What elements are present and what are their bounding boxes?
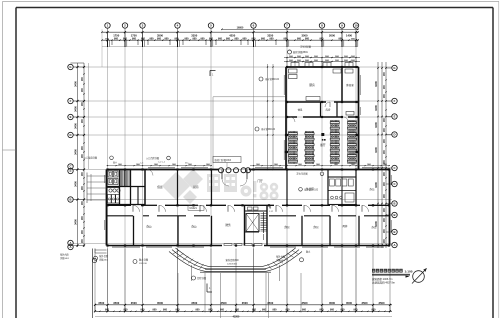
svg-text:办公: 办公 <box>371 225 377 229</box>
watermark text <box>207 174 279 200</box>
annotation toilet detail <box>296 172 324 176</box>
svg-text:900: 900 <box>302 309 307 312</box>
north arrow <box>406 268 427 284</box>
svg-text:C: C <box>393 166 395 170</box>
svg-text:3500: 3500 <box>157 301 163 305</box>
svg-text:3500: 3500 <box>302 301 308 305</box>
right dimension lines <box>378 62 386 248</box>
svg-text:C: C <box>69 165 71 169</box>
svg-text:900: 900 <box>114 38 119 41</box>
right axis circles <box>386 65 397 247</box>
annotation ramp <box>84 156 113 160</box>
svg-text:900: 900 <box>330 309 335 312</box>
svg-text:3500: 3500 <box>242 301 248 305</box>
right dimension numbers <box>374 71 386 243</box>
svg-text:办公: 办公 <box>191 225 197 229</box>
right toilet block walls <box>328 177 356 205</box>
left dimension ticks <box>77 66 86 247</box>
svg-text:10: 10 <box>354 24 358 28</box>
wing wall C <box>286 116 359 118</box>
svg-text:900: 900 <box>201 38 206 41</box>
corridor wall north <box>107 204 390 206</box>
svg-text:D: D <box>393 133 395 137</box>
svg-text:900: 900 <box>218 38 223 41</box>
svg-text:900: 900 <box>262 309 267 312</box>
svg-text:900: 900 <box>124 309 129 312</box>
svg-text:3400: 3400 <box>74 106 78 112</box>
svg-text:B: B <box>69 198 71 202</box>
svg-text:900: 900 <box>196 309 201 312</box>
svg-text:900: 900 <box>235 309 240 312</box>
svg-text:900: 900 <box>243 38 248 41</box>
main bottom wall with entrance <box>107 246 390 248</box>
svg-text:财务: 财务 <box>225 223 231 227</box>
svg-text:3400: 3400 <box>74 149 78 155</box>
svg-text:B: B <box>393 230 395 234</box>
svg-text:900: 900 <box>273 309 278 312</box>
annotation fan detail <box>192 276 207 280</box>
svg-text:1200X300: 1200X300 <box>227 264 238 266</box>
dining hall center column <box>320 133 326 147</box>
svg-text:900: 900 <box>372 309 377 312</box>
svg-text:3500: 3500 <box>346 301 352 305</box>
vertical axis grid lines <box>108 41 357 303</box>
svg-text:D: D <box>69 133 71 137</box>
main top wall <box>107 168 391 170</box>
watermark logo diamonds <box>162 169 203 204</box>
svg-text:900: 900 <box>235 38 240 41</box>
svg-text:3500: 3500 <box>98 301 104 305</box>
svg-text:总建筑面积:4937.9m: 总建筑面积:4937.9m <box>372 280 395 284</box>
svg-text:900: 900 <box>132 38 137 41</box>
steps bottom left <box>95 249 107 254</box>
svg-text:B: B <box>393 202 395 206</box>
wing interior vertical wall <box>341 67 343 102</box>
svg-text:接待: 接待 <box>193 185 199 189</box>
toilet fixtures left block <box>107 171 121 203</box>
svg-text:办公: 办公 <box>146 225 152 229</box>
svg-text:900: 900 <box>105 309 110 312</box>
stair treads left block <box>120 171 130 187</box>
left axis circles <box>68 64 84 249</box>
horizontal axis grid lines <box>73 67 392 244</box>
svg-text:900: 900 <box>141 38 146 41</box>
svg-text:F: F <box>70 99 72 103</box>
wing small room walls <box>321 102 355 117</box>
annotation steps detail left outer <box>60 253 70 260</box>
svg-text:A: A <box>69 245 71 249</box>
svg-text:900: 900 <box>297 38 302 41</box>
entrance platform <box>192 258 280 281</box>
top dimension lines <box>102 29 358 46</box>
room labels <box>146 179 377 229</box>
svg-text:J301 80: J301 80 <box>139 263 148 265</box>
svg-text:F: F <box>394 99 396 103</box>
top axis circles <box>105 23 359 41</box>
corridor boxed door label <box>188 206 204 211</box>
svg-text:A: A <box>393 243 395 247</box>
corridor door swings <box>133 205 369 212</box>
svg-text:G: G <box>393 66 395 70</box>
svg-text:900: 900 <box>176 309 181 312</box>
door arc room1 <box>147 102 348 176</box>
svg-text:休息室: 休息室 <box>346 83 354 87</box>
svg-text:900: 900 <box>165 38 170 41</box>
vestibule walls <box>222 170 247 187</box>
core walls <box>245 205 268 245</box>
annotation above wall <box>146 156 170 160</box>
dining tables column 3 <box>330 120 339 163</box>
svg-text:3500: 3500 <box>379 301 385 305</box>
right dimension ticks <box>377 67 387 246</box>
rain pipe annotation 1 <box>259 77 280 81</box>
wing room labels <box>298 83 355 112</box>
elevator <box>246 207 259 232</box>
title text <box>372 269 413 276</box>
wing annotation kitchen detail <box>288 45 311 55</box>
svg-text:3400: 3400 <box>374 182 378 188</box>
svg-text:900: 900 <box>157 38 162 41</box>
svg-text:休息: 休息 <box>298 108 303 112</box>
svg-text:900: 900 <box>220 309 225 312</box>
fan radial ticks <box>173 250 299 269</box>
svg-text:900: 900 <box>286 309 291 312</box>
svg-text:3400: 3400 <box>374 105 378 111</box>
svg-text:3400: 3400 <box>74 181 78 187</box>
svg-text:C: C <box>69 169 71 173</box>
annotation steps detail 1 <box>94 254 109 261</box>
svg-text:E: E <box>70 115 72 119</box>
structural columns <box>106 66 390 247</box>
svg-text:900: 900 <box>341 309 346 312</box>
svg-text:900: 900 <box>252 309 257 312</box>
bottom dimension lines <box>95 305 392 317</box>
svg-text:3500: 3500 <box>362 301 368 305</box>
svg-text:办公: 办公 <box>369 187 375 191</box>
svg-text:900: 900 <box>150 38 155 41</box>
svg-text:办公: 办公 <box>284 225 290 229</box>
wing top wall with windows <box>286 63 359 68</box>
svg-text:900: 900 <box>209 309 214 312</box>
svg-text:2000: 2000 <box>329 33 335 37</box>
svg-text:900: 900 <box>270 38 275 41</box>
svg-text:风井: 风井 <box>342 224 348 228</box>
svg-text:3500: 3500 <box>131 301 137 305</box>
dining tables column 4 <box>347 120 356 163</box>
bottom dimension ticks <box>94 304 391 313</box>
annotation right bottom <box>306 250 311 254</box>
svg-text:900: 900 <box>305 38 310 41</box>
dining tables column 1 <box>288 131 297 163</box>
dining right wall <box>358 117 360 170</box>
window dim chain above main wall <box>107 164 391 166</box>
bottom dimension ticks extra <box>99 311 385 312</box>
section mark bottom <box>207 284 212 293</box>
wing top dimension lines <box>284 56 360 66</box>
annotation revolving door box <box>213 157 241 169</box>
svg-text:库房: 库房 <box>326 108 331 112</box>
svg-text:900: 900 <box>320 309 325 312</box>
annotation steps detail right <box>276 255 304 262</box>
kitchen fixtures <box>289 69 354 107</box>
svg-text:900: 900 <box>261 38 266 41</box>
left dimension lines <box>71 63 85 247</box>
entrance doors <box>224 244 262 246</box>
section mark top <box>210 71 216 77</box>
entrance ramp left <box>87 173 107 204</box>
svg-text:900: 900 <box>175 38 180 41</box>
toilet stair block walls <box>107 170 146 206</box>
wing left dim chain <box>267 64 274 170</box>
main left wall <box>105 170 107 246</box>
room divider walls upper row <box>178 170 357 206</box>
svg-text:3400: 3400 <box>74 219 78 225</box>
svg-text:3400: 3400 <box>374 122 378 128</box>
svg-text:3400: 3400 <box>374 81 378 87</box>
svg-text:C-2 C-2: C-2 C-2 <box>158 162 166 164</box>
colonnade columns <box>219 168 251 173</box>
wing kitchen wall B <box>286 101 359 103</box>
svg-text:16800: 16800 <box>237 27 244 30</box>
annotation steps detail 2 <box>133 258 149 265</box>
right toilet stalls <box>330 179 355 202</box>
wing left wall <box>284 67 286 170</box>
svg-text:G: G <box>69 65 71 69</box>
svg-text:900: 900 <box>141 309 146 312</box>
svg-text:900: 900 <box>153 309 158 312</box>
svg-text:门厅: 门厅 <box>257 179 263 183</box>
dining tables column 2 <box>305 131 314 163</box>
site boundary line left <box>88 63 90 169</box>
top dimension numbers <box>105 27 355 41</box>
core side annotation <box>269 205 274 213</box>
svg-text:值班: 值班 <box>157 185 163 189</box>
svg-text:办公: 办公 <box>313 225 319 229</box>
svg-text:B: B <box>393 213 395 217</box>
svg-text:厨房详图J501: 厨房详图J501 <box>293 50 308 54</box>
svg-text:餐厅: 餐厅 <box>320 143 326 147</box>
svg-text:900: 900 <box>185 38 190 41</box>
svg-text:3500: 3500 <box>221 301 227 305</box>
svg-text:900: 900 <box>226 38 231 41</box>
rain pipe annotation 2 <box>255 127 276 131</box>
corridor wall south <box>107 215 390 217</box>
svg-text:900: 900 <box>193 38 198 41</box>
svg-text:3500: 3500 <box>329 301 335 305</box>
svg-text:900: 900 <box>354 309 359 312</box>
wing right wall <box>359 67 361 170</box>
entrance fan steps <box>169 248 302 271</box>
canopy line <box>213 97 286 170</box>
svg-text:E: E <box>394 115 396 119</box>
svg-text:1:100: 1:100 <box>405 270 413 274</box>
svg-text:厨房: 厨房 <box>309 83 315 87</box>
title area text <box>372 277 395 285</box>
svg-text:3500: 3500 <box>267 301 273 305</box>
bottom dimension numbers <box>98 301 385 318</box>
svg-text:1400: 1400 <box>346 33 352 37</box>
svg-text:3400: 3400 <box>74 123 78 129</box>
room divider walls lower row <box>134 216 360 246</box>
core stair treads <box>261 212 267 240</box>
svg-text:C: C <box>393 182 395 186</box>
bottom extension lines <box>93 249 391 318</box>
svg-text:M1021: M1021 <box>190 207 198 210</box>
svg-text:3500: 3500 <box>113 301 119 305</box>
svg-text:3400: 3400 <box>74 81 78 87</box>
bottom left axis leader circle <box>92 258 96 262</box>
annotation rain pipe 3 <box>299 187 319 191</box>
left margin tick <box>3 149 17 151</box>
svg-text:900: 900 <box>163 309 168 312</box>
misc small labels top wall <box>113 161 189 165</box>
svg-text:建筑面积:1006.7m: 建筑面积:1006.7m <box>372 277 392 281</box>
svg-text:3400: 3400 <box>374 147 378 153</box>
top axis stubs <box>102 29 358 67</box>
main right wall <box>390 170 392 246</box>
top dimension ticks <box>101 29 359 42</box>
svg-text:3500: 3500 <box>191 301 197 305</box>
left dimension numbers <box>74 76 85 243</box>
